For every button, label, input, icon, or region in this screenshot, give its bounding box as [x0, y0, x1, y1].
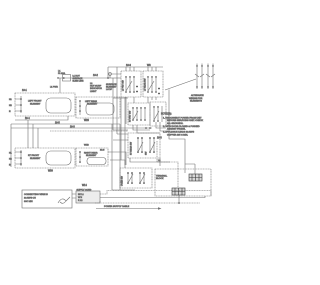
svg-text:RT FRT SW: RT FRT SW: [130, 111, 132, 122]
cabinet ground info box: [22, 190, 72, 208]
svg-text:W N: W N: [78, 197, 83, 199]
infinite switch SW5 double: [128, 133, 160, 158]
svg-text:10-3: 10-3: [70, 126, 75, 128]
wire bus-to-switch links: [126, 67, 156, 71]
svg-text:CONNECTING WIRE IS: CONNECTING WIRE IS: [24, 194, 48, 196]
infinite switch SW6: [120, 168, 152, 188]
hot surface indicator light L1: [109, 73, 121, 78]
svg-text:WIRING FOR: WIRING FOR: [189, 98, 203, 100]
wire jog row3 left: [113, 130, 128, 140]
wire mid bus 2: [11, 123, 120, 125]
svg-text:F1 15A: F1 15A: [58, 72, 66, 75]
svg-text:H2: H2: [9, 159, 13, 161]
svg-text:10-8: 10-8: [100, 150, 105, 152]
svg-text:RT REAR SW: RT REAR SW: [130, 142, 133, 155]
element terminals: [20, 96, 22, 113]
svg-text:60C MIN: 60C MIN: [24, 201, 33, 203]
svg-text:OVEN SW: OVEN SW: [122, 176, 124, 186]
infinite switch SW3: [128, 103, 150, 125]
wire steps row1 to row2: [133, 97, 168, 133]
svg-text:BEFORE SERVICING UNIT. CHECK: BEFORE SERVICING UNIT. CHECK: [167, 120, 203, 122]
right rear element box: [76, 148, 108, 166]
svg-text:ELEM LINE: ELEM LINE: [73, 81, 84, 83]
label alternate wiring: [189, 94, 204, 103]
wire mid bus 1: [15, 116, 68, 120]
wire N dashed to connector B: [157, 141, 178, 187]
svg-text:RT FRONT: RT FRONT: [28, 155, 40, 157]
svg-text:10-4: 10-4: [25, 118, 30, 120]
wire mid bus 3: [11, 127, 152, 129]
label L1 hot surface indicator light: [90, 83, 102, 93]
svg-text:10-1: 10-1: [22, 89, 27, 92]
svg-text:W2B: W2B: [84, 145, 89, 147]
wire bottom bus 2: [100, 196, 205, 198]
alternate wiring switch symbols: [195, 64, 215, 90]
svg-text:L1 PWR: L1 PWR: [50, 87, 58, 89]
svg-text:10 AWG CU: 10 AWG CU: [24, 197, 36, 200]
svg-text:ALTERNATE: ALTERNATE: [191, 94, 204, 97]
svg-text:SURFACE: SURFACE: [106, 83, 117, 86]
svg-text:2. WITH DOOR CLOSED & PUSHED: 2. WITH DOOR CLOSED & PUSHED: [163, 126, 200, 128]
switch wiper SW2: [148, 81, 154, 91]
svg-text:BLOCK: BLOCK: [156, 178, 164, 180]
wire stub to connector A: [185, 164, 195, 174]
svg-text:POWER SUPPLY CABLE: POWER SUPPLY CABLE: [104, 205, 130, 208]
wire left verticals: [11, 120, 38, 167]
fuse F1: [50, 71, 84, 89]
svg-text:H1: H1: [9, 99, 13, 101]
svg-text:SW: SW: [146, 152, 148, 155]
svg-text:ELEMENT: ELEMENT: [30, 158, 41, 160]
svg-text:L1: L1: [58, 71, 61, 73]
wire arrow: [96, 208, 158, 210]
infinite switch SW4: [150, 102, 166, 126]
svg-text:LT FRT SW: LT FRT SW: [123, 80, 125, 91]
svg-text:LEFT FRONT: LEFT FRONT: [28, 101, 42, 103]
svg-text:W30: W30: [48, 171, 53, 173]
svg-text:ALL GROUNDS.: ALL GROUNDS.: [167, 122, 184, 125]
svg-text:INDICATOR: INDICATOR: [90, 87, 102, 90]
power cord junction block: [76, 190, 100, 203]
infinite switch SW1 (left front): [121, 71, 141, 97]
wire pointer diagonal: [165, 79, 196, 90]
node grid drop: [178, 195, 180, 203]
svg-text:10-6: 10-6: [126, 64, 131, 67]
wire left feeder: [59, 78, 61, 93]
svg-text:SUPPLY CORD: SUPPLY CORD: [77, 190, 92, 192]
infinite switch SW2 (left rear): [143, 71, 163, 97]
svg-text:10-2: 10-2: [93, 74, 98, 77]
wire row1 top entry: [113, 97, 128, 99]
svg-text:LT REAR SW: LT REAR SW: [144, 78, 147, 91]
wire mid bus 4 dashed: [50, 130, 128, 132]
svg-text:W14: W14: [82, 185, 87, 187]
element coil loop: [46, 98, 71, 113]
oven control dashed box: [155, 169, 211, 196]
svg-text:W28: W28: [84, 120, 89, 122]
svg-text:LEFT REAR: LEFT REAR: [85, 100, 97, 103]
wire switch drops: [126, 97, 134, 124]
ground squiggle: [58, 199, 66, 203]
connector P1: [189, 174, 202, 181]
svg-text:H2: H2: [9, 105, 13, 107]
wire drop to bottom: [120, 124, 135, 190]
svg-text:NOTE(S):: NOTE(S):: [161, 113, 172, 116]
rt front element box: [15, 148, 75, 168]
svg-text:AGAINST FRAME.: AGAINST FRAME.: [167, 128, 186, 131]
switch wiper SW1: [126, 81, 132, 91]
svg-text:ELEMENT: ELEMENT: [86, 155, 97, 157]
wire mid verticals: [112, 67, 125, 190]
wire stepped bottom of sw5: [110, 158, 170, 168]
svg-text:N: N: [9, 111, 11, 113]
svg-text:TERMINAL: TERMINAL: [156, 175, 168, 178]
connector P2: [172, 188, 185, 195]
notes text: [161, 113, 203, 137]
wire bottom bus 3 dashed: [95, 201, 200, 203]
left rear element box: [76, 97, 120, 118]
left front element box: [15, 93, 75, 116]
svg-text:LOOP: LOOP: [106, 89, 113, 91]
svg-text:RIGHT REAR: RIGHT REAR: [84, 152, 98, 155]
svg-text:H1: H1: [9, 153, 13, 155]
wire bottom bus dashed: [100, 191, 211, 197]
wire to terminal block: [169, 90, 185, 174]
svg-text:10-5: 10-5: [55, 122, 60, 124]
label surface element loop: [106, 83, 117, 91]
wire L1 riser: [107, 67, 109, 78]
svg-text:ELEMENT: ELEMENT: [30, 103, 41, 105]
svg-text:LIGHT: LIGHT: [90, 91, 97, 93]
svg-text:ELEMENT: ELEMENT: [87, 104, 98, 106]
wire top bus to switches: [108, 66, 163, 68]
wire L1 top bus left segment: [58, 77, 108, 79]
svg-text:COPPER 105 C MIN.: COPPER 105 C MIN.: [167, 134, 188, 136]
node junction at bus: [107, 77, 109, 79]
svg-text:BK L1: BK L1: [78, 194, 85, 196]
svg-text:W6: W6: [147, 64, 151, 67]
wire L1 into switch: [108, 77, 121, 79]
svg-text:3. APPLIANCE LEADS 18 AWG: 3. APPLIANCE LEADS 18 AWG: [163, 131, 194, 134]
svg-text:ELEMENTS: ELEMENTS: [190, 101, 202, 103]
wire info to cord: [72, 194, 76, 198]
svg-text:10-3: 10-3: [157, 138, 162, 140]
label terminal block: [156, 175, 168, 181]
wire from right rear element: [108, 152, 126, 165]
